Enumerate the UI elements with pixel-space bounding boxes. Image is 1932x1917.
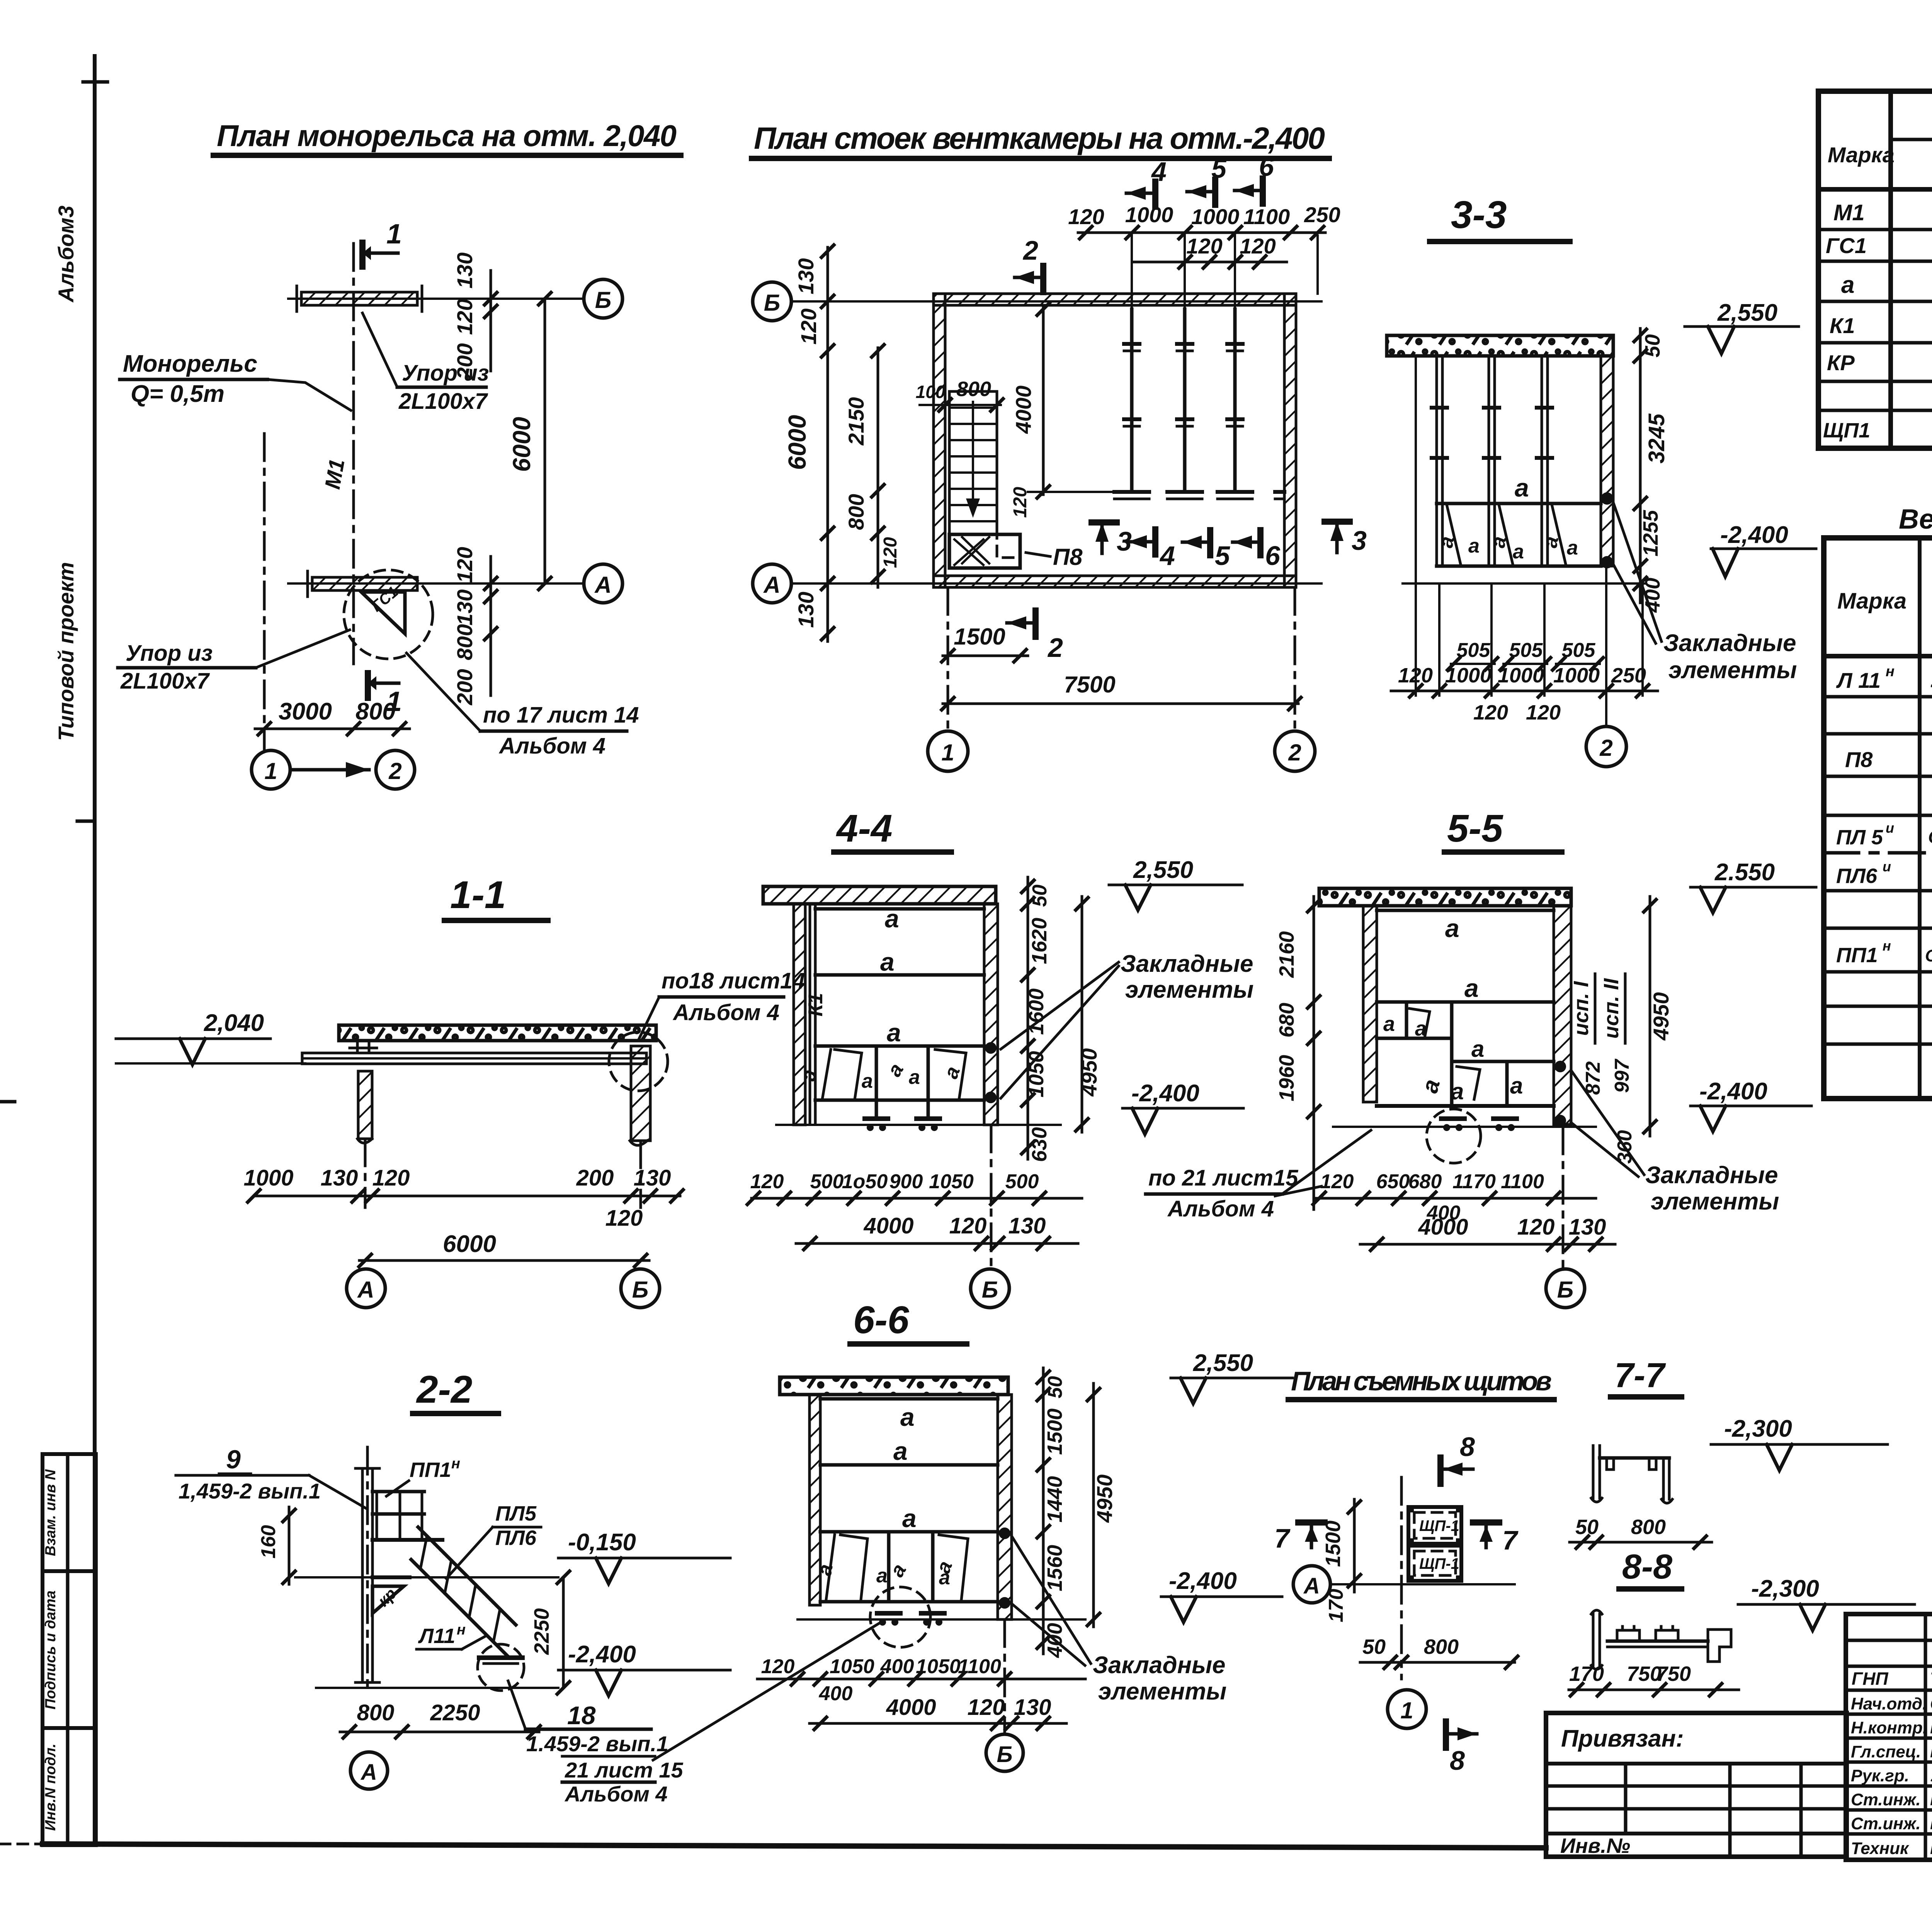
svg-text:997: 997	[1611, 1059, 1633, 1093]
section mark 3 bottom-left	[1092, 519, 1117, 526]
monorail M1 dash-dot line	[352, 243, 355, 664]
svg-text:А: А	[763, 572, 780, 598]
КР corbel triangle	[372, 1586, 404, 1613]
bottom chord	[1437, 565, 1601, 568]
axis line А	[1330, 1583, 1515, 1585]
svg-text:800: 800	[1424, 1635, 1459, 1658]
header bottom	[1824, 654, 1932, 658]
svg-text:8: 8	[1460, 1432, 1475, 1462]
svg-text:Марка: Марка	[1828, 143, 1895, 167]
panel plan	[1400, 1477, 1403, 1679]
monorail I-beam	[302, 1053, 646, 1064]
svg-text:120: 120	[605, 1206, 643, 1231]
axis circle 1	[947, 587, 949, 730]
svg-text:800: 800	[1631, 1516, 1666, 1539]
svg-text:а: а	[883, 1060, 908, 1080]
svg-text:элементы: элементы	[1651, 1188, 1779, 1215]
svg-text:800: 800	[956, 378, 991, 401]
svg-text:4000: 4000	[1011, 386, 1036, 434]
vertical dim line 6000	[544, 299, 546, 583]
svg-text:а: а	[1567, 537, 1578, 559]
slab hatched	[763, 886, 996, 904]
svg-text:4000: 4000	[863, 1213, 913, 1238]
svg-text:Закладные: Закладные	[1645, 1162, 1778, 1189]
privyazan block	[1546, 1713, 1847, 1857]
svg-text:7-7: 7-7	[1614, 1356, 1666, 1395]
beams a	[815, 907, 984, 911]
svg-text:130: 130	[452, 252, 477, 288]
svg-text:-2,400: -2,400	[1131, 1080, 1199, 1107]
axis circle А	[350, 1752, 388, 1789]
bottom chord	[1377, 1104, 1554, 1108]
svg-text:ПЛ6: ПЛ6	[495, 1526, 537, 1550]
dim 2250 vertical	[562, 1577, 565, 1688]
wall bracket right	[1275, 490, 1284, 494]
table 1 row lines	[1818, 228, 1932, 231]
svg-text:1620: 1620	[1028, 918, 1051, 964]
svg-text:120: 120	[796, 308, 821, 344]
embedded blobs	[999, 1527, 1010, 1539]
svg-text:н: н	[1883, 938, 1891, 954]
svg-text:120: 120	[372, 1165, 410, 1191]
svg-text:2250: 2250	[530, 1608, 553, 1655]
svg-text:Гл.спец.: Гл.спец.	[1851, 1742, 1921, 1761]
upper stop beam (upor) on axis Б	[301, 292, 417, 305]
dim 1500	[1353, 1499, 1356, 1592]
axis circle Б	[753, 282, 791, 321]
svg-text:170: 170	[1325, 1589, 1347, 1623]
svg-text:Альбом 4: Альбом 4	[498, 733, 605, 759]
svg-text:Рук.гр.: Рук.гр.	[1851, 1766, 1909, 1785]
axis circle 2	[1586, 726, 1626, 767]
svg-text:2,550: 2,550	[1193, 1350, 1253, 1376]
svg-text:1: 1	[941, 740, 954, 765]
svg-text:120: 120	[1517, 1214, 1555, 1240]
svg-text:Б: Б	[595, 287, 611, 313]
wall column vertical	[361, 1468, 364, 1682]
svg-text:120: 120	[761, 1655, 795, 1678]
bottom wall	[934, 576, 1296, 587]
svg-text:3000: 3000	[279, 698, 332, 725]
svg-text:1960: 1960	[1275, 1055, 1298, 1101]
svg-text:Ст.инж.: Ст.инж.	[1851, 1814, 1921, 1833]
svg-text:ЩП-1: ЩП-1	[1419, 1555, 1459, 1572]
floor line -2.400	[1403, 582, 1646, 585]
svg-text:по 21 лист15: по 21 лист15	[1148, 1165, 1298, 1191]
svg-text:Ведомость элементов по серии 1: Ведомость элементов по серии 1.459-2 вып…	[1899, 504, 1932, 535]
svg-text:800: 800	[355, 698, 395, 725]
svg-text:-2,400: -2,400	[1720, 522, 1788, 548]
svg-text:500: 500	[1005, 1170, 1039, 1193]
axis circle Б	[621, 1269, 660, 1308]
svg-text:План монорельса на отм. 2,040: План монорельса на отм. 2,040	[217, 119, 677, 153]
svg-text:3-3: 3-3	[1451, 193, 1507, 236]
svg-text:6000: 6000	[508, 417, 536, 472]
svg-text:130: 130	[1009, 1213, 1046, 1238]
stair rail	[418, 1527, 516, 1625]
svg-text:50: 50	[1044, 1376, 1066, 1398]
bottom dims row1	[757, 1678, 1085, 1681]
vertical dash line through axis 1	[263, 434, 266, 749]
svg-text:-2,300: -2,300	[1751, 1575, 1819, 1602]
svg-text:2L100х7: 2L100х7	[398, 389, 488, 414]
top dim row 1	[1078, 231, 1325, 234]
svg-text:Светличный: Светличный	[1930, 1694, 1932, 1713]
extension lines down	[1438, 583, 1440, 696]
svg-text:Инв.№: Инв.№	[1560, 1834, 1630, 1857]
svg-text:а: а	[1513, 541, 1524, 563]
svg-text:н: н	[1886, 663, 1895, 680]
svg-text:1050: 1050	[1025, 1051, 1048, 1097]
svg-text:2250: 2250	[430, 1700, 480, 1725]
svg-text:а: а	[1841, 272, 1854, 298]
svg-text:Учитель: Учитель	[1930, 1765, 1932, 1785]
svg-text:Техник: Техник	[1851, 1839, 1910, 1858]
svg-text:6-6: 6-6	[853, 1298, 910, 1342]
platform П8	[949, 534, 1020, 568]
svg-text:Типовой проект: Типовой проект	[54, 562, 78, 741]
brace verticals and diagonals	[875, 1048, 878, 1118]
svg-text:2: 2	[1599, 735, 1612, 761]
right wall	[1284, 294, 1296, 587]
dashed detail circle	[344, 570, 433, 659]
svg-text:а: а	[900, 1403, 915, 1431]
section mark 1 (top)	[359, 243, 366, 267]
embedded blobs	[1554, 1061, 1566, 1072]
svg-text:120: 120	[1320, 1170, 1354, 1193]
leader to по 21 лист15	[1275, 1186, 1321, 1196]
left column	[358, 1071, 372, 1139]
svg-text:1050: 1050	[916, 1655, 961, 1678]
bottom dims row 1	[752, 1197, 1082, 1200]
axis line Б	[288, 298, 583, 300]
svg-text:а: а	[893, 1437, 908, 1465]
svg-text:130: 130	[452, 589, 477, 625]
svg-text:а: а	[862, 1070, 873, 1092]
svg-text:Туринский: Туринский	[1930, 1669, 1932, 1689]
left dim ladder inner	[877, 348, 879, 587]
left margin stamp boxes	[43, 1454, 96, 1845]
svg-text:а: а	[887, 1018, 901, 1047]
section mark 7 right	[1473, 1519, 1499, 1526]
svg-text:130: 130	[634, 1165, 671, 1191]
bottom dims row2	[810, 1722, 1066, 1725]
svg-text:120: 120	[452, 547, 477, 583]
svg-text:Упор из: Упор из	[126, 641, 213, 666]
axis circle А	[753, 564, 791, 603]
table 2 row lines	[1824, 695, 1932, 699]
svg-text:6000: 6000	[443, 1231, 496, 1257]
svg-text:и: и	[1886, 820, 1894, 836]
svg-text:Рапопорт: Рапопорт	[1930, 1813, 1932, 1833]
svg-text:Закладные: Закладные	[1121, 951, 1253, 977]
К1 column at left inner face	[809, 904, 811, 1123]
fold tick on left frame middle	[77, 820, 95, 823]
braces	[887, 1533, 891, 1600]
table 2 verticals	[1918, 538, 1922, 1099]
left dim ladder	[1313, 896, 1315, 1209]
left wall	[1363, 906, 1377, 1102]
svg-text:200: 200	[452, 343, 477, 379]
svg-text:750: 750	[1656, 1662, 1691, 1686]
svg-text:1255: 1255	[1639, 510, 1662, 556]
svg-text:П8: П8	[1053, 544, 1083, 570]
svg-text:400: 400	[880, 1655, 914, 1678]
right dim ladder	[1042, 1368, 1045, 1654]
svg-text:ПЛ6: ПЛ6	[1836, 864, 1878, 888]
concrete slab	[339, 1025, 656, 1041]
svg-text:Гудзенко: Гудзенко	[1930, 1717, 1932, 1737]
detail members	[1592, 1446, 1595, 1498]
svg-text:7: 7	[1502, 1525, 1519, 1555]
svg-text:120: 120	[949, 1213, 987, 1238]
dim 4950	[1649, 896, 1651, 1136]
svg-text:2,040: 2,040	[204, 1010, 264, 1036]
svg-text:План стоек венткамеры на отм.-: План стоек венткамеры на отм.-2,400	[754, 121, 1325, 155]
svg-text:М1: М1	[320, 457, 349, 491]
svg-text:Закладные: Закладные	[1663, 630, 1796, 657]
svg-text:Взам. инв N: Взам. инв N	[43, 1469, 59, 1556]
svg-text:Инв.N подл.: Инв.N подл.	[43, 1744, 59, 1831]
diagonal braces	[1447, 506, 1461, 564]
svg-text:2: 2	[1288, 740, 1301, 765]
svg-text:1.459-2 вып.1: 1.459-2 вып.1	[526, 1732, 668, 1756]
svg-text:ПП1: ПП1	[1836, 944, 1878, 967]
svg-text:6: 6	[1265, 541, 1281, 571]
embedded blobs right wall	[985, 1042, 997, 1054]
svg-text:1: 1	[1400, 1698, 1413, 1723]
svg-text:а: а	[880, 947, 895, 976]
svg-text:1600: 1600	[1025, 988, 1048, 1035]
section mark 1 (bottom)	[365, 673, 371, 698]
svg-text:2: 2	[388, 758, 401, 784]
svg-text:-2,300: -2,300	[1724, 1415, 1792, 1442]
svg-text:Б: Б	[632, 1277, 648, 1303]
svg-text:по18 лист14: по18 лист14	[662, 968, 805, 993]
table 2 outer box	[1824, 538, 1932, 1099]
column 2	[1183, 309, 1187, 492]
left wall	[934, 294, 945, 587]
dim 160	[288, 1507, 291, 1584]
svg-text:элементы: элементы	[1668, 657, 1797, 684]
svg-text:2: 2	[1047, 633, 1063, 663]
hanger ties at left column	[356, 1041, 359, 1053]
svg-text:а: а	[876, 1565, 888, 1587]
sheet frame bottom border	[43, 1844, 1546, 1848]
sheet frame left border	[93, 56, 97, 1845]
bottom dim line	[1391, 690, 1658, 692]
svg-text:ЩП-1: ЩП-1	[1419, 1517, 1459, 1534]
wall column right hatched	[1601, 356, 1613, 566]
svg-text:1100: 1100	[1243, 204, 1290, 229]
svg-text:Альбом3: Альбом3	[54, 206, 78, 303]
svg-text:2160: 2160	[1275, 931, 1298, 978]
svg-text:120: 120	[1398, 664, 1433, 687]
svg-text:1о50: 1о50	[842, 1170, 888, 1193]
left wall	[794, 904, 805, 1125]
table 1 verticals	[1888, 91, 1893, 448]
svg-text:1: 1	[264, 758, 277, 784]
svg-text:А: А	[1303, 1573, 1320, 1599]
svg-text:7: 7	[1274, 1523, 1291, 1553]
svg-text:1100: 1100	[1501, 1170, 1544, 1193]
svg-text:650: 650	[1376, 1170, 1410, 1193]
beams	[820, 1397, 998, 1401]
svg-text:Ст.инж.: Ст.инж.	[1851, 1790, 1921, 1809]
column 3	[1233, 309, 1237, 492]
right dim ladder 2: 4950	[1081, 896, 1083, 1132]
svg-text:1440: 1440	[1043, 1476, 1066, 1522]
svg-text:2L100х7: 2L100х7	[120, 668, 210, 694]
svg-text:50: 50	[1641, 334, 1664, 357]
leader from dashed circle to 21 лист 15 note	[653, 1621, 883, 1760]
bottom dims row 2	[796, 1242, 1078, 1245]
right dim ladder 1	[1027, 877, 1029, 1159]
svg-text:а: а	[1510, 1073, 1523, 1099]
dim ladder near А	[490, 556, 492, 696]
left wall	[810, 1395, 820, 1605]
svg-text:130: 130	[321, 1165, 358, 1191]
svg-text:Марка: Марка	[1837, 589, 1906, 614]
dashed circle at stair foot	[478, 1644, 524, 1691]
svg-text:2,550: 2,550	[1133, 857, 1193, 883]
svg-text:Ограждение переходной площадки: Ограждение переходной площадки	[1925, 946, 1932, 965]
fold dash bottom-left edge	[0, 1100, 15, 1104]
dim 4000 vertical	[1042, 307, 1045, 495]
svg-text:120: 120	[1526, 701, 1561, 724]
bracket ГС1 triangle	[361, 592, 405, 634]
dim ladder near Б	[490, 270, 492, 371]
svg-text:элементы: элементы	[1098, 1678, 1226, 1705]
svg-text:кр: кр	[374, 1584, 400, 1610]
svg-text:2150: 2150	[844, 397, 868, 446]
column 1	[1130, 309, 1134, 492]
feet	[1441, 1116, 1464, 1121]
axis line А	[791, 582, 1321, 585]
embedded element blobs	[1601, 492, 1613, 505]
axis circle Б	[1003, 1619, 1006, 1732]
beam line	[1377, 1000, 1554, 1004]
svg-text:Рапопорт: Рапопорт	[1930, 1789, 1932, 1809]
svg-text:Альбом 4: Альбом 4	[672, 1000, 779, 1025]
svg-text:120: 120	[1068, 204, 1104, 229]
section mark 8 bottom	[1443, 1721, 1449, 1748]
svg-text:ГНП: ГНП	[1852, 1669, 1888, 1689]
svg-text:130: 130	[794, 258, 818, 294]
svg-text:а: а	[1417, 1077, 1445, 1096]
svg-text:П8: П8	[1845, 747, 1873, 772]
slab	[780, 1377, 1008, 1395]
svg-text:исп. II: исп. II	[1600, 978, 1623, 1039]
extension lines from columns to top dims	[1131, 236, 1133, 309]
svg-text:2.550: 2.550	[1714, 859, 1775, 886]
svg-text:ЩП1: ЩП1	[1823, 419, 1870, 442]
svg-text:1: 1	[386, 219, 402, 250]
svg-text:120: 120	[452, 299, 477, 335]
svg-text:Б: Б	[764, 290, 780, 316]
svg-text:7500: 7500	[1064, 672, 1115, 697]
axis circle 1	[252, 750, 290, 789]
svg-text:4950: 4950	[1077, 1048, 1101, 1097]
svg-text:1050: 1050	[830, 1655, 874, 1678]
svg-text:Б: Б	[982, 1277, 998, 1303]
right dim ladder	[1639, 328, 1642, 603]
lower stop beam on axis А	[312, 577, 417, 590]
dashed circle at foot	[1427, 1109, 1481, 1163]
svg-text:а: а	[1515, 473, 1529, 502]
svg-text:1050: 1050	[929, 1170, 974, 1193]
svg-text:ПЛ 5: ПЛ 5	[1836, 826, 1883, 849]
svg-text:400: 400	[819, 1682, 853, 1705]
svg-text:а: а	[909, 1066, 920, 1089]
svg-text:н: н	[457, 1622, 466, 1638]
dashed detail circle	[609, 1032, 668, 1091]
detail members	[1592, 1614, 1595, 1665]
svg-text:а: а	[1471, 1036, 1484, 1062]
svg-text:1100: 1100	[958, 1655, 1001, 1678]
svg-text:200: 200	[576, 1165, 614, 1191]
svg-text:2: 2	[1022, 235, 1038, 265]
svg-text:21 лист 15: 21 лист 15	[565, 1758, 684, 1782]
slab	[1319, 888, 1571, 906]
svg-text:а: а	[1464, 974, 1479, 1002]
svg-text:100: 100	[916, 382, 946, 402]
svg-text:1000: 1000	[243, 1165, 293, 1191]
axis line Б	[791, 300, 1321, 303]
svg-text:и: и	[1883, 859, 1891, 874]
axis line А	[288, 582, 583, 585]
beam line through columns bottoms	[1028, 491, 1132, 493]
svg-text:ГС1: ГС1	[1826, 233, 1867, 258]
svg-text:Власова: Власова	[1930, 1838, 1932, 1858]
axis circle Б	[1562, 1127, 1565, 1267]
svg-text:120: 120	[1240, 234, 1276, 258]
svg-text:500: 500	[810, 1170, 844, 1193]
axis circle 2	[376, 750, 415, 789]
svg-text:5: 5	[1215, 541, 1230, 571]
svg-text:120: 120	[750, 1170, 784, 1193]
svg-text:Б: Б	[997, 1742, 1012, 1767]
svg-text:а: а	[902, 1504, 917, 1533]
staircase	[949, 391, 997, 534]
svg-text:3: 3	[1352, 526, 1367, 556]
table 1 outer box	[1818, 91, 1932, 448]
svg-text:А: А	[357, 1277, 374, 1303]
svg-text:170: 170	[1569, 1662, 1604, 1686]
svg-text:120: 120	[880, 537, 901, 568]
concrete slab	[1387, 335, 1613, 356]
bottom dims row 1	[1314, 1197, 1596, 1200]
svg-text:250: 250	[1611, 664, 1646, 687]
right wall	[984, 904, 998, 1125]
svg-text:Альбом 4: Альбом 4	[1167, 1196, 1274, 1221]
svg-text:а: а	[1383, 1012, 1395, 1036]
svg-text:18: 18	[567, 1701, 596, 1730]
column 1	[1435, 356, 1438, 566]
svg-text:К1: К1	[1830, 313, 1855, 338]
svg-text:-2,400: -2,400	[1699, 1078, 1767, 1105]
svg-text:5-5: 5-5	[1447, 807, 1503, 850]
svg-text:КР: КР	[1827, 350, 1855, 375]
svg-text:1500: 1500	[1321, 1521, 1345, 1567]
svg-text:1000: 1000	[1191, 204, 1240, 229]
svg-text:1000: 1000	[1125, 202, 1173, 227]
svg-text:120: 120	[1186, 234, 1222, 258]
section mark 3 bottom-right	[1325, 519, 1350, 525]
svg-text:Q= 0,5т: Q= 0,5т	[131, 381, 224, 407]
svg-text:Закладные: Закладные	[1093, 1652, 1226, 1679]
svg-text:элементы: элементы	[1125, 976, 1253, 1003]
